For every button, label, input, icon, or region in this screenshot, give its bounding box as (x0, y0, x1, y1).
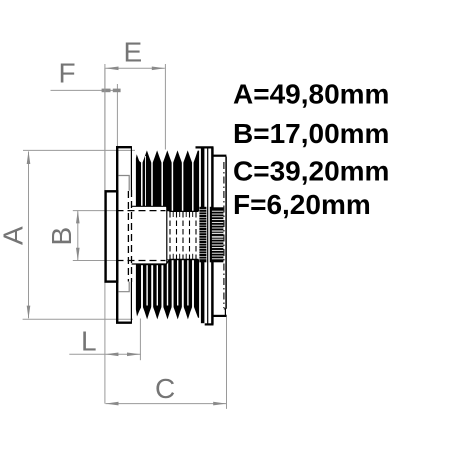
flange face white slit (199, 149, 201, 323)
svg-text:F: F (59, 58, 76, 89)
svg-text:L: L (81, 326, 97, 357)
hidden bore line bottom (117, 260, 166, 262)
dimension B arrow down (76, 248, 80, 261)
dimension E arrow right (152, 67, 165, 71)
dimension L line (69, 353, 141, 355)
dimension A line (28, 152, 30, 319)
dimension C arrow left (105, 402, 118, 406)
right flange bottom edge (205, 323, 214, 325)
dimension L arrow right (127, 353, 140, 357)
sleeve step bottom (224, 309, 226, 315)
dimension E extension line left (104, 64, 106, 191)
spline column A (199, 207, 206, 262)
dimension C line (106, 403, 227, 405)
svg-text:A=49,80mm: A=49,80mm (233, 79, 389, 110)
svg-text:B=17,00mm: B=17,00mm (233, 118, 389, 149)
gray step contour bottom (118, 282, 129, 292)
svg-text:C=39,20mm: C=39,20mm (233, 155, 389, 186)
right flange inner face bar (201, 148, 205, 323)
thread crest ticks (173, 212, 193, 259)
sleeve hidden dash-dot line (223, 162, 225, 308)
dimension B arrow up (76, 210, 80, 223)
bore top edge (132, 206, 199, 211)
internal thread dashed lines (170, 212, 196, 259)
svg-text:F=6,20mm: F=6,20mm (233, 189, 371, 220)
dimension E arrow left (105, 67, 118, 71)
sleeve right edge (225, 157, 227, 309)
right flange thin inner vertical (207, 148, 209, 324)
hidden bore line top (117, 210, 166, 212)
svg-text:E: E (124, 37, 143, 68)
dimension L arrow left (105, 353, 118, 357)
spline gap vertical (210, 207, 212, 262)
dimension F arrow right (113, 89, 121, 93)
left flange disc (117, 147, 132, 323)
left flange inner face edge (130, 146, 132, 323)
svg-text:C: C (155, 373, 175, 404)
dimension A extension line top (23, 149, 135, 151)
dimension B extension line bottom (73, 260, 117, 262)
ribbed band bottom (poly-V grooves) (136, 259, 199, 319)
sleeve bottom edge (214, 315, 227, 317)
hidden dashed vertical flange inner face (131, 190, 133, 282)
rib groove slits top (141, 156, 194, 211)
dimension L extension line right (139, 319, 141, 361)
spline column B (212, 207, 224, 262)
right flange right edge (211, 147, 214, 324)
dimension E line (106, 67, 165, 69)
dimension A extension line bottom (23, 318, 133, 320)
gray step contour top (118, 176, 129, 191)
dimension B line (77, 211, 79, 260)
bore face vertical (166, 207, 168, 264)
dimension A arrow down (27, 306, 31, 319)
dimension E extension line right (164, 64, 166, 150)
bore bottom edge (132, 259, 199, 264)
ribbed band top (poly-V grooves) (136, 150, 199, 211)
dimension C extension line right (226, 315, 228, 409)
right flange top edge (196, 146, 214, 148)
svg-text:A: A (0, 226, 29, 245)
extension line left face (shared E/F/L/C) (104, 68, 106, 403)
dimension F arrow left (102, 89, 111, 93)
dimension B extension line top (73, 210, 117, 212)
dimension A arrow up (27, 151, 31, 164)
hub protrusion left (106, 191, 118, 281)
sleeve top edge (214, 155, 227, 157)
rib groove slits bottom (141, 260, 194, 307)
hidden dashed vertical inner left (127, 191, 129, 282)
dimension F extension line right (116, 84, 118, 146)
dimension C arrow right (213, 402, 226, 406)
dimension F line (51, 89, 121, 91)
svg-text:B: B (46, 227, 77, 246)
